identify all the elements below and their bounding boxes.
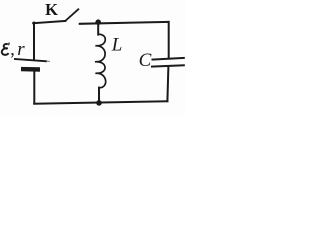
svg-text:C: C (139, 50, 152, 71)
label EMF top flourish (7, 43, 10, 45)
inductor L coil (95, 34, 106, 87)
battery short thick plate (-) (21, 67, 40, 72)
battery long plate (+) (14, 59, 47, 61)
node junction dot top (95, 19, 101, 25)
battery long plate faded right extension (47, 60, 51, 62)
wire top-right segment (80, 22, 169, 24)
switch K blade (65, 9, 78, 21)
svg-text:r: r (17, 39, 25, 60)
wire right vertical (capacitor branch lower) (167, 66, 168, 101)
inductor top lead wire (97, 22, 99, 34)
capacitor C top plate (152, 58, 185, 60)
svg-text:K: K (45, 0, 58, 19)
svg-text:,: , (10, 39, 15, 59)
wire top-left segment to switch pivot (33, 21, 65, 23)
label EMF script-E glyph (2, 44, 9, 55)
capacitor C bottom plate (151, 65, 185, 66)
wire left vertical (battery branch upper) (33, 23, 35, 60)
inductor bottom lead wire (98, 88, 100, 103)
wire right vertical (capacitor branch upper) (168, 22, 170, 59)
svg-text:L: L (111, 34, 123, 55)
wire bottom segment (34, 101, 167, 103)
node junction dot bottom (96, 100, 102, 106)
wire left vertical (battery branch lower) (33, 71, 35, 104)
